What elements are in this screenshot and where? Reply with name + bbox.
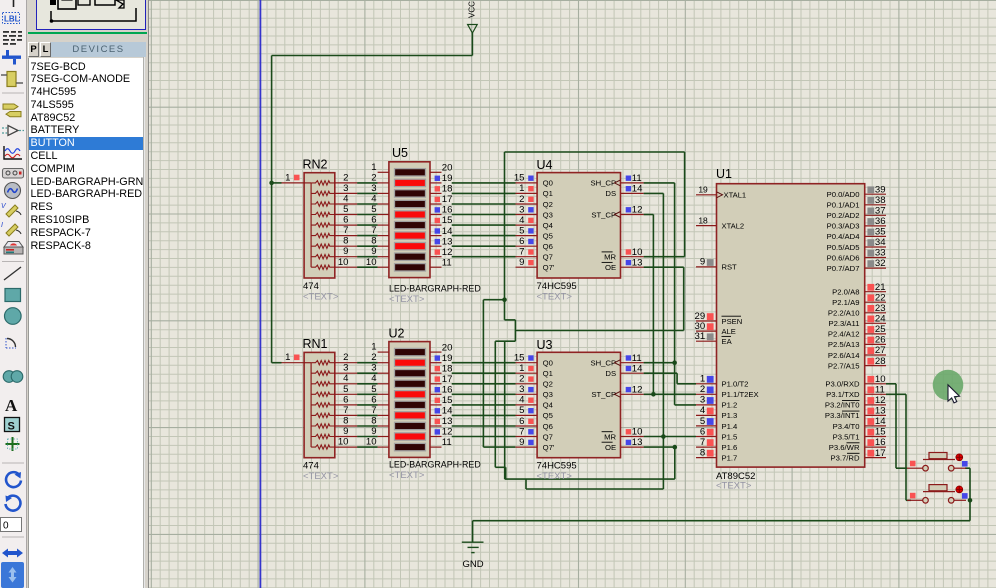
- wire U4 SH_CP to bus: [644, 182, 675, 184]
- svg-text:Q4: Q4: [543, 401, 554, 410]
- wire U2 pin 13 to U3 pin Q6: [452, 425, 516, 427]
- svg-text:74HC595: 74HC595: [537, 461, 577, 472]
- U1 pin name P2.6/A14: [828, 351, 860, 360]
- U1 pin 32 number: [875, 258, 886, 269]
- microcontroller U1 body: [717, 184, 865, 467]
- junction mid rail: [502, 297, 507, 302]
- U2 pin 18 state: [435, 366, 440, 371]
- U1 pin name P1.0/T2: [722, 380, 749, 389]
- svg-text:12: 12: [632, 205, 643, 216]
- svg-text:EA: EA: [722, 337, 733, 346]
- junction SH_CP bus at U3: [672, 360, 677, 365]
- U1 pin 33 stub (P0.6): [865, 257, 886, 259]
- U1 pin 21 state: [867, 284, 874, 291]
- svg-text:16: 16: [442, 385, 453, 396]
- U4 pin 5 state: [528, 228, 533, 233]
- U2 pin 20 stub: [430, 351, 442, 353]
- U2 pin 14 number: [442, 406, 453, 417]
- U3 pin 6 state: [528, 419, 533, 424]
- wire ST_CP bus vertical: [652, 215, 654, 395]
- U1 pin name P2.2/A10: [828, 309, 860, 318]
- U2 pin 1 stub: [378, 351, 389, 353]
- wire SH_CP bus to U1 P1.2: [675, 404, 696, 406]
- svg-text:1: 1: [371, 342, 376, 353]
- svg-text:P2.2/A10: P2.2/A10: [828, 309, 860, 318]
- RN2 pin 3 stub: [335, 192, 357, 194]
- U1 pin 35 state: [867, 229, 874, 236]
- wire top loop right vertical: [684, 152, 686, 257]
- svg-text:ST_CP: ST_CP: [591, 210, 616, 219]
- svg-text:U2: U2: [389, 327, 405, 341]
- wire RN2 pin 5 to U5 pin 5: [357, 214, 378, 216]
- junction at RN2 pin 1 rail: [269, 181, 274, 186]
- svg-text:OE: OE: [605, 263, 616, 272]
- junction DS bus at MR row: [661, 434, 666, 439]
- U2 pin 9 number: [371, 426, 376, 437]
- shift register U4: [537, 173, 620, 278]
- svg-text:SH_CP: SH_CP: [590, 359, 616, 368]
- U1 pin 14 stub (P3.4): [865, 425, 886, 427]
- U3 reference label: [537, 338, 553, 352]
- svg-text:11: 11: [442, 437, 452, 448]
- U1 pin name P2.3/A11: [828, 319, 859, 328]
- svg-text:13: 13: [442, 236, 453, 247]
- U1 pin name P1.2: [722, 401, 738, 410]
- sheet border (blue page edge line): [259, 0, 261, 588]
- U1 pin name P0.6/AD6: [827, 253, 860, 262]
- svg-text:5: 5: [519, 225, 524, 236]
- RN2 pin 8 stub: [335, 245, 357, 247]
- svg-text:A: A: [5, 396, 18, 415]
- RN1 pin 3 stub: [335, 372, 357, 374]
- svg-text:Q7: Q7: [543, 432, 553, 441]
- U1 pin 24 state: [867, 316, 874, 323]
- svg-text:8: 8: [343, 236, 348, 247]
- U5 pin 10 stub: [378, 266, 389, 268]
- U1 pin 30 number: [695, 321, 706, 332]
- U1 pin 33 state: [867, 250, 874, 257]
- U1 pin 6 stub (P1.5): [696, 436, 717, 438]
- RN1 pin 9 number: [343, 426, 348, 437]
- U3 pin 15 number: [514, 353, 525, 364]
- U2 pin 7 number: [371, 405, 376, 416]
- RN1 pin 4 number: [343, 373, 349, 384]
- toolbar wire label icon: [3, 13, 20, 24]
- svg-text:Q5: Q5: [543, 231, 553, 240]
- U4 pin 4 stub: [516, 224, 538, 226]
- U1 pin 29 state: [707, 313, 714, 320]
- RN2 pin 1 number: [285, 172, 290, 183]
- U1 pin 17 state: [867, 450, 874, 457]
- svg-text:P3.1/TXD: P3.1/TXD: [826, 390, 860, 399]
- U5 pin 19 state: [435, 176, 440, 181]
- U3 value 74HC595: [537, 461, 577, 472]
- U1 pin name P0.4/AD4: [827, 232, 861, 241]
- svg-text:23: 23: [875, 303, 886, 314]
- toolbar angle field: [1, 518, 22, 532]
- svg-text:DS: DS: [605, 369, 616, 378]
- svg-text:Q3: Q3: [543, 210, 553, 219]
- wire U5 pin 12 to U4 pin Q7: [452, 256, 516, 258]
- U3 pin 3 number: [519, 384, 524, 395]
- svg-text:U1: U1: [716, 167, 732, 181]
- U1 pin 17 stub (P3.7): [865, 457, 886, 459]
- U4 pin 1 number: [519, 183, 524, 194]
- svg-text:13: 13: [875, 406, 886, 417]
- svg-text:10: 10: [632, 247, 643, 258]
- wire to button1 left: [896, 467, 907, 469]
- wire lower jog horizontal: [505, 478, 675, 480]
- U3 pin 12 number: [632, 385, 643, 396]
- wire U3 DS jog vertical: [676, 373, 678, 384]
- wire to button2 left: [906, 499, 911, 501]
- svg-text:<TEXT>: <TEXT>: [716, 481, 752, 492]
- push button 2: [907, 485, 966, 504]
- U5 pin 5 stub: [378, 214, 389, 216]
- wire U2 pin 19 to U3 pin Q0: [452, 362, 516, 364]
- U4 pin 13 state: [626, 260, 631, 265]
- svg-text:P2.4/A12: P2.4/A12: [828, 330, 860, 339]
- svg-text:20: 20: [442, 163, 453, 174]
- U3 pin 5 stub: [516, 414, 538, 416]
- wire RN1 pin 6 to U2 pin 6: [357, 404, 378, 406]
- svg-text:U4: U4: [537, 158, 553, 172]
- U1 pin 9 number: [700, 257, 705, 268]
- RN1 pin 4 stub: [335, 383, 357, 385]
- svg-text:9: 9: [343, 426, 348, 437]
- U4 pin 12 stub: [621, 214, 644, 216]
- svg-text:RN1: RN1: [303, 337, 328, 351]
- wire top loop left vertical: [504, 152, 506, 320]
- wire bus bottom jog vertical: [525, 479, 527, 489]
- svg-text:GND: GND: [463, 559, 484, 570]
- U4 pin 11 state: [626, 176, 631, 181]
- U2 value label: [389, 460, 481, 470]
- svg-text:6: 6: [700, 426, 705, 437]
- toolbar separator: [2, 261, 24, 263]
- U1 pin name P0.7/AD7: [827, 264, 860, 273]
- U4 pin 14 number: [632, 184, 643, 195]
- U3 pin 3 stub: [516, 393, 538, 395]
- U1 pin 24 stub (P2.3): [865, 322, 886, 324]
- toolbar 2d arc icon: [6, 338, 16, 348]
- svg-text:Q5: Q5: [543, 411, 553, 420]
- svg-text:2: 2: [700, 384, 705, 395]
- wire ground bus: [473, 520, 970, 522]
- U1 pin name P0.2/AD2: [827, 211, 860, 220]
- svg-text:8: 8: [343, 416, 348, 427]
- RN1 text placeholder: [303, 471, 339, 482]
- U5 pin 17 stub: [430, 203, 442, 205]
- svg-text:15: 15: [514, 173, 525, 184]
- wire branch to U3 Q7 rail: [483, 299, 504, 301]
- U3 pin 15 stub: [516, 362, 538, 364]
- wire to RN2 pin 1: [272, 182, 282, 184]
- svg-text:<TEXT>: <TEXT>: [389, 470, 425, 481]
- svg-text:ST_CP: ST_CP: [591, 390, 616, 399]
- RN2 pin 5 stub: [335, 214, 357, 216]
- U2 pin 10 number: [366, 437, 377, 448]
- wire U3 DS jog horizontal: [644, 372, 678, 374]
- U2 pin 19 stub: [430, 362, 442, 364]
- U1 pin 25 state: [867, 326, 874, 333]
- svg-text:24: 24: [875, 314, 886, 325]
- green status line: [28, 32, 147, 34]
- wire ground drop: [472, 521, 474, 543]
- wire VCC drop: [471, 33, 473, 56]
- svg-text:DS: DS: [605, 189, 616, 198]
- wire button1 right to rail: [965, 467, 970, 469]
- U1 pin 15 stub (P3.5): [865, 436, 886, 438]
- U1 pin 37 state: [867, 208, 874, 215]
- svg-text:8: 8: [700, 447, 705, 458]
- U1 reference label: [716, 167, 732, 181]
- svg-text:31: 31: [695, 331, 706, 342]
- svg-text:2: 2: [371, 172, 376, 183]
- U1 pin 12 number: [875, 395, 886, 406]
- svg-text:P2.1/A9: P2.1/A9: [832, 298, 859, 307]
- U1 pin 29 stub (PSEN): [696, 320, 717, 322]
- RN1 pin 1 stub: [282, 362, 305, 364]
- svg-text:Q4: Q4: [543, 221, 554, 230]
- svg-text:16: 16: [442, 205, 453, 216]
- U1 pin 8 state: [707, 450, 714, 457]
- wire OE drop vertical: [674, 447, 676, 479]
- toolbar tape icon: [3, 169, 24, 179]
- U1 pin name P3.6/WR: [829, 443, 860, 452]
- wire RN1 pin 10 to U2 pin 10: [357, 446, 378, 448]
- RN2 pin 9 stub: [335, 256, 357, 258]
- svg-text:<TEXT>: <TEXT>: [537, 471, 573, 482]
- U1 pin 19 stub (XTAL1): [696, 194, 717, 196]
- svg-text:OE: OE: [605, 443, 616, 452]
- svg-text:7: 7: [371, 225, 376, 236]
- toolbar 2d circle icon: [5, 308, 22, 325]
- svg-text:P2.0/A8: P2.0/A8: [832, 288, 859, 297]
- svg-text:20: 20: [442, 342, 453, 353]
- svg-text:474: 474: [303, 461, 319, 472]
- LED bargraph U2: [389, 342, 430, 458]
- svg-text:15: 15: [514, 353, 525, 364]
- U5 pin 20 number: [442, 163, 453, 174]
- U4 pin 3 number: [519, 204, 524, 215]
- U1 pin 16 state: [867, 439, 874, 446]
- U1 pin 3 stub (P1.2): [696, 404, 717, 406]
- shift register U3: [537, 352, 620, 457]
- U1 pin 27 state: [867, 347, 874, 354]
- U1 pin name P2.0/A8: [832, 288, 859, 297]
- U4 pin 4 number: [519, 215, 525, 226]
- U1 pin 16 stub (P3.6): [865, 446, 886, 448]
- wire mid long horizontal: [515, 330, 683, 332]
- U2 pin 16 number: [442, 385, 453, 396]
- button 1 right state: [962, 461, 968, 467]
- resistor network RN2: [304, 173, 335, 278]
- svg-text:9: 9: [700, 257, 705, 268]
- U3 pin 11 state: [626, 355, 631, 360]
- svg-text:5: 5: [371, 204, 376, 215]
- U5 pin 13 stub: [430, 245, 442, 247]
- toolbar 2d path icon: [3, 371, 23, 383]
- toolbar generator icon: [5, 183, 21, 199]
- svg-text:17: 17: [875, 448, 886, 459]
- wire RN2 pin 8 to U5 pin 8: [357, 245, 378, 247]
- U1 pin 34 number: [875, 237, 886, 248]
- svg-text:2: 2: [371, 352, 376, 363]
- U5 pin 12 stub: [430, 256, 442, 258]
- U2 pin 5 number: [371, 384, 376, 395]
- U4 pin 13 stub: [621, 266, 644, 268]
- svg-text:15: 15: [442, 395, 453, 406]
- U1 pin 18 number: [698, 215, 708, 225]
- U1 pin 28 state: [867, 358, 874, 365]
- toolbar current probe icon: [1, 222, 21, 236]
- svg-text:2: 2: [519, 194, 524, 205]
- U1 pin 2 state: [707, 387, 714, 394]
- svg-text:Q1: Q1: [543, 369, 553, 378]
- U3 pin 13 stub: [621, 446, 644, 448]
- svg-text:13: 13: [632, 437, 643, 448]
- svg-text:P3.3/INT1: P3.3/INT1: [825, 411, 860, 420]
- RN2 pin 2 number: [343, 172, 348, 183]
- U1 pin 19 number: [698, 185, 708, 195]
- U5 pin 16 stub: [430, 214, 442, 216]
- svg-text:3: 3: [371, 183, 376, 194]
- wire mid return horizontal: [495, 340, 515, 342]
- U1 pin 32 state: [867, 260, 874, 267]
- U1 pin 33 number: [875, 248, 886, 259]
- U2 pin 12 stub: [430, 436, 442, 438]
- U1 pin 23 number: [875, 303, 886, 314]
- U5 pin 3 stub: [378, 192, 389, 194]
- wire U2 pin 18 to U3 pin Q1: [452, 372, 516, 374]
- RN2 value 474: [303, 281, 319, 292]
- U2 pin 15 stub: [430, 404, 442, 406]
- U4 pin 15 stub: [516, 182, 538, 184]
- svg-text:LBL: LBL: [4, 15, 20, 24]
- svg-text:12: 12: [442, 427, 453, 438]
- U3 pin 1 stub: [516, 372, 538, 374]
- RN1 pin 1 number: [285, 352, 290, 363]
- U3 pin 14 state: [626, 366, 631, 371]
- U2 pin 17 state: [435, 376, 440, 381]
- U1 pin 38 stub (P0.1): [865, 204, 886, 206]
- U1 pin 11 number: [875, 385, 885, 396]
- wire RN2 pin 10 to U5 pin 10: [357, 266, 378, 268]
- U1 pin 10 number: [875, 374, 886, 385]
- U2 pin 2 number: [371, 352, 376, 363]
- wire mid return vertical: [494, 341, 496, 467]
- RN2 pin 4 number: [343, 194, 349, 205]
- U1 pin 22 stub (P2.1): [865, 301, 886, 303]
- toolbar separator: [2, 536, 24, 538]
- U2 pin 7 stub: [378, 414, 389, 416]
- svg-text:14: 14: [442, 406, 453, 417]
- wire left rail vertical: [271, 56, 273, 363]
- U4 pin 6 state: [528, 239, 533, 244]
- U4 pin 9 stub: [516, 266, 538, 268]
- svg-text:P0.6/AD6: P0.6/AD6: [827, 253, 860, 262]
- U1 pin 6 number: [700, 426, 705, 437]
- RN2 pin 7 stub: [335, 235, 357, 237]
- svg-text:22: 22: [875, 292, 886, 303]
- wire U2 pin 14 to U3 pin Q5: [452, 414, 516, 416]
- U5 pin 16 number: [442, 205, 453, 216]
- U1 pin 9 stub (RST): [696, 266, 717, 268]
- svg-text:5: 5: [519, 405, 524, 416]
- svg-text:15: 15: [442, 215, 453, 226]
- U5 pin 12 number: [442, 247, 453, 258]
- svg-text:1: 1: [371, 162, 376, 173]
- wire U3 Q7 rail vertical: [482, 300, 484, 447]
- U5 pin 18 stub: [430, 192, 442, 194]
- U1 pin 7 stub (P1.6): [696, 446, 717, 448]
- U1 pin 13 state: [867, 408, 874, 415]
- svg-text:P3.0/RXD: P3.0/RXD: [825, 380, 860, 389]
- U4 pin 10 number: [632, 247, 643, 258]
- svg-text:9: 9: [519, 257, 524, 268]
- toolbar component icon: [1, 72, 23, 87]
- wire P3.1 drop: [905, 394, 907, 500]
- RN1 pin 8 number: [343, 416, 348, 427]
- toolbar text tool icon: [5, 396, 18, 415]
- U1 PSEN overline: [722, 315, 742, 317]
- wire U5 pin 15 to U4 pin Q4: [452, 224, 516, 226]
- wire U5 pin 18 to U4 pin Q1: [452, 192, 516, 194]
- power symbol VCC: [468, 1, 478, 33]
- RN2 pin 4 stub: [335, 203, 357, 205]
- RN2 pin 6 stub: [335, 224, 357, 226]
- U3 pin 1 state: [528, 366, 533, 371]
- svg-text:Q3: Q3: [543, 390, 553, 399]
- RN2 pin 1 stub: [282, 182, 305, 184]
- U1 pin name P2.4/A12: [828, 330, 860, 339]
- RN1 pin 6 stub: [335, 404, 357, 406]
- toolbar symbol tool icon: [5, 418, 20, 433]
- U1 pin 18 stub (XTAL2): [696, 225, 717, 227]
- U2 pin 11 number: [442, 437, 452, 448]
- U5 pin 17 number: [442, 194, 453, 205]
- wire RN2 pin 2 to U5 pin 2: [357, 182, 378, 184]
- svg-text:P1.1/T2EX: P1.1/T2EX: [722, 390, 759, 399]
- RN2 text placeholder: [303, 292, 339, 303]
- svg-text:XTAL1: XTAL1: [724, 191, 747, 200]
- U2 pin 12 number: [442, 427, 453, 438]
- U1 pin 34 state: [867, 239, 874, 246]
- wire U3 DS to U1 P1.0: [677, 383, 696, 385]
- U3 pin 11 stub: [621, 362, 644, 364]
- svg-text:3: 3: [371, 363, 376, 374]
- resistor network RN1: [304, 352, 335, 457]
- U5 value label: [389, 284, 481, 294]
- wire to RN1 pin 1: [272, 362, 282, 364]
- U1 pin 31 number: [695, 331, 706, 342]
- svg-text:74HC595: 74HC595: [537, 281, 577, 292]
- U1 pin 14 number: [875, 416, 886, 427]
- U1 pin 34 stub (P0.5): [865, 246, 886, 248]
- U3 pin 7 number: [519, 426, 524, 437]
- U2 pin 18 number: [442, 363, 453, 374]
- U3 pin 5 state: [528, 408, 533, 413]
- svg-text:<TEXT>: <TEXT>: [537, 292, 573, 303]
- RN1 pin 10 number: [338, 437, 349, 448]
- svg-text:4: 4: [343, 373, 349, 384]
- svg-text:Q0: Q0: [543, 359, 553, 368]
- wire U1 P3.0 out: [886, 383, 896, 385]
- svg-text:Q2: Q2: [543, 200, 553, 209]
- U1 pin name XTAL1: [717, 191, 747, 200]
- U1 pin name P2.5/A13: [828, 340, 860, 349]
